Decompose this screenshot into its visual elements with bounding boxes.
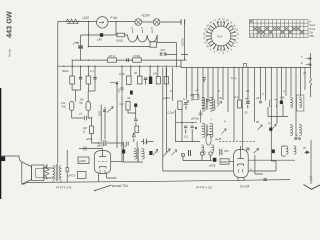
svg-text:1234567891111: 1234567891111 [250, 34, 292, 38]
output transformer core [56, 164, 58, 181]
capacitor series on AF line [104, 140, 106, 146]
resistor box x237.5 [237, 100, 241, 108]
wire: right cluster verticals [268, 105, 283, 117]
resistor R 1M vertical [89, 126, 93, 134]
table row lines [249, 23, 308, 34]
resistor: hum balancer box [150, 42, 157, 47]
wire: h line y=122.7 [175, 122, 197, 124]
svg-text:a: a [284, 89, 286, 93]
svg-text:µ5: µ5 [127, 96, 131, 100]
junction dots rail A1 [80, 59, 81, 60]
cap with hatch x219-223 [220, 149, 223, 156]
wire: detector link [248, 159, 295, 161]
IF1 core hatch [206, 99, 207, 110]
IF transformer 1 lower: coil loops right [210, 123, 213, 137]
interstage core [137, 148, 138, 162]
switch: mains switch lever [95, 185, 112, 191]
svg-text:0,05: 0,05 [119, 72, 125, 76]
wire: mains vertical ~220V [184, 22, 186, 57]
svg-text:50: 50 [256, 120, 260, 124]
boxed label B250 [220, 159, 229, 164]
capacitor: blocking pair [160, 53, 167, 55]
svg-text:B: B [310, 21, 312, 24]
boxed label uF05 near tube [78, 157, 89, 164]
speaker cone [22, 162, 32, 184]
svg-text:30: 30 [134, 71, 138, 75]
interstage transformer right coil [141, 148, 144, 159]
cap above rect tube [246, 148, 249, 150]
svg-text:Ω: Ω [83, 130, 85, 134]
field coil zigzag [45, 166, 49, 177]
svg-text:3: 3 [151, 26, 153, 30]
wire: vertical x=116 to rail B [115, 22, 117, 35]
osc slug oval [206, 134, 211, 145]
tube cathode [100, 167, 107, 169]
wire: vertical x=135.7 [128, 107, 136, 119]
svg-text:MW: MW [310, 35, 315, 38]
svg-text:3: 3 [141, 26, 143, 30]
table X marks [250, 20, 304, 34]
wire: bus drop x=239 [238, 67, 240, 100]
resistor 170 ohm box on rail A1 [133, 58, 142, 62]
resistor R 100ohm box [117, 33, 125, 37]
wire: bus drop x=271.3 [270, 67, 272, 161]
output transformer secondary coil [59, 166, 61, 180]
svg-text:µF0,5: µF0,5 [68, 174, 76, 178]
svg-text:a: a [301, 56, 303, 59]
svg-text:≈102: ≈102 [82, 16, 89, 20]
svg-text:3: 3 [131, 26, 133, 30]
electrolytic C left (oval) [70, 102, 74, 111]
svg-text:µ: µ [251, 167, 253, 171]
wire: demod out circles [295, 138, 297, 140]
svg-text:F 6A: F 6A [111, 16, 119, 20]
capacitor dark pair [189, 150, 191, 156]
svg-text:7: 7 [217, 51, 219, 54]
svg-text:0,2µF: 0,2µF [168, 111, 175, 115]
break ticks on vertical [310, 177, 313, 181]
wire: vertical x=67 from transformer area up [66, 150, 68, 182]
jack squiggle [204, 151, 207, 156]
capacitor stub [246, 102, 249, 104]
svg-text:≈220V: ≈220V [180, 37, 184, 47]
wire: transformer bottom join [122, 161, 143, 163]
wire: screen rail y=46.6 [88, 35, 150, 47]
wire: joins below row [72, 84, 95, 102]
jack circle 3 [209, 152, 212, 155]
junction dots on rail C comb [191, 67, 301, 68]
wire: link to rect tube [229, 161, 234, 163]
IF1 lower core hatch [206, 125, 207, 136]
wire: rail B (y=35) [81, 34, 117, 36]
svg-text:µ: µ [219, 89, 221, 93]
capacitor 0,1uF between [72, 116, 92, 120]
trimmer arrow right cluster 2 [272, 124, 277, 129]
wire: verticals below ovals [72, 111, 89, 119]
svg-text:7kΩ: 7kΩ [61, 105, 66, 109]
capacitor row: C2 [93, 78, 96, 80]
junction: top wire to dropper branch [88, 21, 89, 22]
jack circle 1 [181, 153, 184, 156]
wire: right link [271, 160, 276, 162]
wire: bus drop x=242.7 [242, 67, 244, 150]
svg-text:Hornu: Hornu [8, 48, 12, 57]
svg-text:1,5k: 1,5k [280, 96, 286, 100]
svg-text:0,3: 0,3 [120, 102, 124, 106]
wire: anode top lead [79, 147, 103, 151]
wire: speaker bottom lead to bus [22, 182, 26, 185]
detector diode arrow [110, 82, 116, 83]
resistor box row y76-84: R 50k [70, 76, 75, 84]
svg-text:µ2: µ2 [196, 88, 200, 92]
svg-text:Rund: Rund [310, 28, 316, 31]
trimmer arrow on osc coil [217, 101, 222, 106]
svg-text:µF05: µF05 [97, 144, 104, 148]
jack circle 2 [200, 152, 203, 155]
junction: top wire to lamp shunt [115, 21, 116, 22]
wire: grid lead vertical x123.6 [123, 142, 125, 162]
svg-text:47: 47 [170, 89, 174, 93]
capacitor below2 [191, 126, 194, 133]
resistor box row: R 0,3M [86, 76, 91, 84]
demod coil pair lower [286, 146, 289, 154]
resistor box row: R 5k [137, 76, 142, 84]
wire: trimmer branch from rail B left end [80, 35, 82, 60]
svg-text:6: 6 [222, 51, 224, 54]
capacitor below [184, 126, 187, 133]
wire: long vertical x=117 [116, 81, 118, 148]
svg-text:2: 2 [234, 41, 238, 44]
IF2 shield box [297, 95, 304, 111]
small marks near 265,181 [264, 179, 267, 181]
junction [98, 142, 99, 143]
tube2 pins to bus [238, 177, 244, 181]
capacitor at 185.5,102 [184, 103, 188, 110]
wire: bus drop x=186.5 [186, 67, 188, 98]
resistor box AVC lower [135, 126, 139, 133]
svg-text:µF05: µF05 [79, 159, 86, 163]
rect tube cathode [238, 164, 244, 166]
trimmer arrow lower [222, 129, 227, 134]
IF transformer 2: upper coil right [299, 97, 302, 108]
trimmer arrow right cluster [258, 125, 263, 130]
pot arrow mid-left [107, 107, 113, 113]
capacitor row mid [144, 78, 147, 80]
capacitor dark blob right [280, 101, 283, 105]
mains terminal lower [181, 55, 188, 61]
output tube AL4 envelope [94, 150, 110, 173]
wire: left column cap to AF grid [120, 87, 123, 94]
capacitor x246-250 [246, 102, 250, 109]
resistor: line-cord dropper [66, 19, 79, 23]
pot arrow near rect tube [254, 148, 259, 153]
wire: x=122 column down [121, 95, 123, 162]
wire: AF line drop to transformer [136, 142, 138, 148]
svg-text:0,1: 0,1 [268, 121, 272, 125]
wire: bus drop x=277 [276, 67, 278, 124]
svg-text:18: 18 [217, 18, 221, 21]
output transformer primary coil [53, 166, 55, 180]
junction on screen rail [88, 46, 89, 47]
svg-text:PF PT F d 05: PF PT F d 05 [56, 186, 72, 190]
capacitor pair at 126,142 [126, 142, 128, 146]
svg-text:50kΩ: 50kΩ [62, 69, 69, 73]
wire: verticals x=101,105 mid-left [101, 105, 105, 142]
coupling cap blob [122, 150, 125, 154]
svg-text:0,1µ: 0,1µ [231, 76, 237, 80]
wire: bracket left of demod coils [282, 146, 286, 156]
svg-text:443 GW: 443 GW [5, 11, 14, 38]
wire: bus drop x=197.8 [197, 67, 199, 98]
IF transformer 1 lower: coil loops left [202, 123, 205, 137]
svg-text:0,2: 0,2 [184, 135, 188, 139]
capacitor stub [206, 100, 209, 102]
svg-text:µ47: µ47 [144, 141, 149, 145]
arrow onto detector line [304, 151, 310, 154]
svg-text:LW: LW [310, 31, 314, 34]
wire: pot bottom wire [163, 150, 234, 171]
svg-text:µF003: µF003 [191, 117, 199, 121]
wire: AF stub to interstage [141, 141, 154, 143]
capacitor blob above tube2 [272, 150, 275, 154]
capacitor at 204,78 [203, 78, 206, 80]
svg-text:µF05: µF05 [86, 137, 93, 141]
wire: jack links [183, 155, 212, 160]
right edge: terminal b [306, 63, 311, 65]
capacitor small at 104,111 [103, 110, 106, 112]
capacitor with dot at 131-137,134-140 [132, 135, 136, 142]
bracket mark left of AVC [118, 89, 121, 93]
tube anode [99, 149, 106, 157]
IF transformer 1: coil loops right column [210, 97, 213, 111]
svg-text:µF05: µF05 [209, 164, 216, 168]
volume pot arrow [163, 149, 170, 157]
svg-text:1: 1 [236, 37, 239, 39]
junction dots on mixer line [181, 122, 182, 123]
resistor: dark filled 10k 4W [149, 77, 152, 85]
svg-text:24: 24 [236, 32, 239, 36]
wire: bus drop x=265.7 [265, 67, 267, 100]
capacitor series stub [144, 139, 147, 145]
tone cap blob [149, 151, 152, 155]
wire: drops rail C to AF component row [72, 66, 166, 87]
wire: vertical to 1M resistor [91, 118, 93, 126]
wire: AF return riser [249, 160, 277, 171]
wire: bus drop x=254.5 [254, 67, 256, 122]
trimmer capacitor plates [78, 46, 83, 48]
IF transformer 2: upper coil left [290, 97, 293, 108]
wire: rail C main B- distribution [58, 66, 310, 67]
wire: left long vertical (B- bus down to output transformer) [57, 22, 59, 164]
mains terminal upper [181, 19, 185, 24]
svg-text:12: 12 [203, 36, 206, 40]
svg-text:0,5: 0,5 [190, 93, 194, 97]
svg-text:µµ: µµ [303, 146, 307, 150]
wire: x=254.9 vertical [255, 155, 263, 174]
osc coil column [213, 99, 216, 110]
dial lamp L1 [135, 19, 142, 26]
wire: bottom long bus [26, 180, 290, 183]
crossover jog on rail C [244, 63, 247, 67]
wire: tube pins down [99, 173, 117, 182]
wire: bus drop x=218 [217, 67, 219, 104]
svg-text:G•3: G•3 [217, 35, 222, 39]
resistor box at 178,101-109 [178, 101, 182, 110]
dial lamp L2 [153, 19, 160, 26]
mixer grid arrow [184, 100, 189, 105]
svg-text:µF: µF [245, 97, 249, 101]
wire: bus drop x=234 [233, 67, 235, 141]
speaker magnet box [32, 165, 45, 181]
svg-text:250: 250 [224, 149, 229, 153]
wire: rail A1 left end drop [71, 60, 73, 66]
capacitor small on rail A1 [127, 58, 129, 62]
svg-text:≈110V: ≈110V [141, 14, 151, 18]
wire: speaker top lead [2, 156, 22, 162]
interstage transformer left coil [134, 148, 137, 159]
wire: transformer secondary down to bottom bus [53, 181, 61, 183]
tone trimmer arrow [153, 149, 158, 155]
antenna choke squiggle [309, 79, 311, 86]
wire: bus drop x=260.5 [260, 67, 262, 100]
wire: long verticals center x162.8,166.6 [163, 67, 167, 152]
wire: bus drop x=228 [227, 67, 229, 112]
svg-text:G H.M: G H.M [240, 185, 250, 189]
resistor box: R row [156, 77, 160, 85]
wire: bus drop x=286 [285, 67, 287, 96]
left page edge mark [0, 88, 2, 199]
wire: choke end down to hum pot [156, 35, 158, 42]
wire: box to mains riser [157, 43, 177, 55]
tube heater [100, 170, 105, 173]
wire: dark blob small [130, 91, 133, 95]
svg-text:µ5: µ5 [256, 96, 260, 100]
svg-text:0,1: 0,1 [90, 69, 94, 73]
thermo element circle [66, 167, 69, 172]
table frame [249, 20, 308, 38]
crystal dark blob [213, 158, 217, 162]
junction dots rail C [63, 66, 64, 67]
resistor R 0,3M vertical [126, 102, 130, 111]
wire: speaker to transformer [43, 164, 54, 179]
tap arrows on choke [133, 30, 153, 34]
svg-text:220: 220 [161, 48, 166, 52]
terminal block dark left [1, 157, 5, 162]
wire: bus drop x=192 [191, 67, 193, 101]
svg-text:µ: µ [157, 150, 159, 154]
wire: bus drop x=300.5 [300, 67, 302, 96]
capacitor dark blob right lower [269, 128, 272, 131]
rect tube heater [238, 169, 242, 173]
svg-text:PF PTF d 100: PF PTF d 100 [196, 186, 213, 190]
svg-text:100Ω: 100Ω [116, 39, 124, 43]
capacitor row: C 0,1 [79, 78, 82, 80]
svg-text:B250: B250 [221, 160, 228, 164]
wire: bus drop x=172.5 [172, 67, 174, 101]
svg-text:30: 30 [245, 111, 249, 115]
resistor 15 ohm box on rail A1 [108, 58, 117, 62]
wire: bus drop x=296 [295, 67, 297, 136]
svg-text:30: 30 [246, 89, 250, 93]
wire: bus drop x=248 [247, 67, 249, 101]
svg-text:µF: µF [303, 71, 307, 75]
resistor box: R row2 [164, 77, 168, 85]
IF transformer 2: lower coil right [299, 124, 302, 135]
capacitor C at 134-139,119-124 [134, 119, 137, 125]
chassis dashed line [219, 141, 256, 143]
speaker inner box [36, 169, 44, 178]
dial tick dots ring [206, 21, 237, 50]
osc feedback coil pair [201, 145, 204, 153]
svg-text:10k: 10k [153, 72, 158, 76]
chassis ground symbol [304, 185, 320, 190]
junction rail B [88, 34, 89, 35]
table column lines [253, 20, 304, 38]
capacitor curved plate right [270, 100, 277, 108]
wire: bus drop x=291 [290, 67, 292, 96]
wire: bus drop x=305 [304, 67, 306, 90]
svg-text:A T34: A T34 [119, 184, 128, 188]
wire: mid connections [199, 110, 203, 123]
svg-text:8: 8 [213, 49, 216, 53]
wire: right vertical to chassis [310, 140, 312, 184]
wire: bus drop x=208 [207, 67, 209, 98]
wire: rail A1 heater rail y=60.1 [72, 59, 187, 61]
dial inner circle [211, 26, 231, 46]
IF transformer 2: lower coil left [290, 124, 293, 135]
svg-text:170Ω: 170Ω [133, 54, 141, 58]
svg-text:µ: µ [224, 119, 226, 123]
dial radial ticks [206, 21, 236, 51]
wire: h line y=141.6 [175, 123, 200, 142]
boxed label left [78, 172, 87, 179]
wire: bus drop x=203 [202, 67, 204, 110]
svg-text:µF5: µF5 [97, 38, 103, 42]
wire: bottom AF line y=143 [92, 134, 124, 144]
wire: h link y114.5 right cluster [268, 116, 288, 118]
svg-text:50: 50 [80, 101, 84, 105]
svg-text:µ1: µ1 [79, 112, 83, 116]
svg-text:5: 5 [226, 50, 229, 54]
svg-text:0,1: 0,1 [235, 95, 239, 99]
svg-text:0,1: 0,1 [183, 97, 187, 101]
wire: bus drop x=281.5 [281, 67, 283, 100]
right edge: terminal a [306, 57, 311, 59]
meter/ballast tube M1 [97, 17, 108, 28]
antenna lead vertical [310, 53, 312, 97]
svg-text:µ: µ [263, 92, 265, 96]
svg-text:⊥: ⊥ [210, 117, 213, 121]
IF transformer 1: coil loops left column [202, 97, 205, 111]
wire: h link tube to pot [111, 161, 122, 163]
capacitor stub [259, 101, 262, 103]
inductor: heater choke humps [125, 35, 157, 42]
tube grid dashes [99, 161, 108, 163]
capacitor: electrolytic on rail B [100, 33, 103, 37]
rectifier tube envelope [234, 149, 249, 177]
svg-text:15 Ω: 15 Ω [109, 54, 116, 58]
wire: bus drop x=223 [222, 67, 224, 100]
wire: riser mains to rail C [177, 55, 182, 68]
electrolytic C mid (oval) [86, 102, 90, 111]
svg-text:E: E [301, 61, 303, 65]
svg-text:Sperr: Sperr [310, 24, 316, 27]
rect tube anode [237, 146, 244, 159]
svg-text:45: 45 [219, 96, 223, 100]
wire: vertical x=88.4 from top wire to rail B [87, 22, 89, 36]
wire: mains top line [58, 21, 181, 24]
svg-text:4: 4 [229, 48, 232, 52]
